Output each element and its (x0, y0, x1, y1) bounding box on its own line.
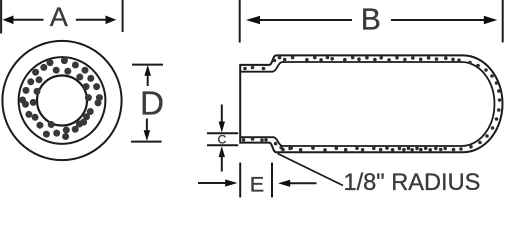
dimension B right extension line (502, 0, 504, 43)
dimension C up arrow (221, 157, 223, 172)
svg-text:E: E (250, 171, 264, 196)
front view inner circle (bore) (37, 76, 87, 126)
front view outer circle (2, 41, 121, 160)
side view wall stipple dots (242, 56, 502, 152)
dimension A right arrow (76, 19, 107, 21)
front view stipple dots (19, 57, 103, 140)
dimension E right extension line (271, 163, 273, 198)
radius leader line (278, 154, 344, 186)
dimension E left extension line (239, 163, 241, 198)
dimension A left extension line (0, 0, 2, 34)
dimension C down arrow (221, 105, 223, 123)
svg-text:B: B (361, 4, 381, 37)
dimension B right arrow (391, 19, 485, 21)
dimension B left extension line (239, 0, 241, 43)
dimension E right arrow (289, 182, 317, 184)
dimension D bottom extension line (131, 141, 162, 143)
svg-text:1/8" RADIUS: 1/8" RADIUS (344, 170, 481, 196)
front view middle circle (19, 57, 106, 144)
dimension D up arrow (147, 74, 149, 86)
dimension B left arrow (258, 19, 352, 21)
dimension D top extension line (132, 64, 163, 66)
svg-text:D: D (140, 86, 164, 123)
dimension E left arrow (198, 182, 226, 184)
dimension C top extension line (207, 132, 238, 134)
dimension A left arrow (13, 19, 44, 21)
side view inner contour (240, 62, 494, 146)
svg-text:C: C (218, 132, 227, 146)
dimension A right extension line (122, 0, 124, 32)
dimension C bottom extension line (207, 144, 238, 146)
side view outer contour (240, 55, 502, 152)
dimension D down arrow (146, 119, 148, 132)
svg-text:A: A (50, 1, 69, 32)
